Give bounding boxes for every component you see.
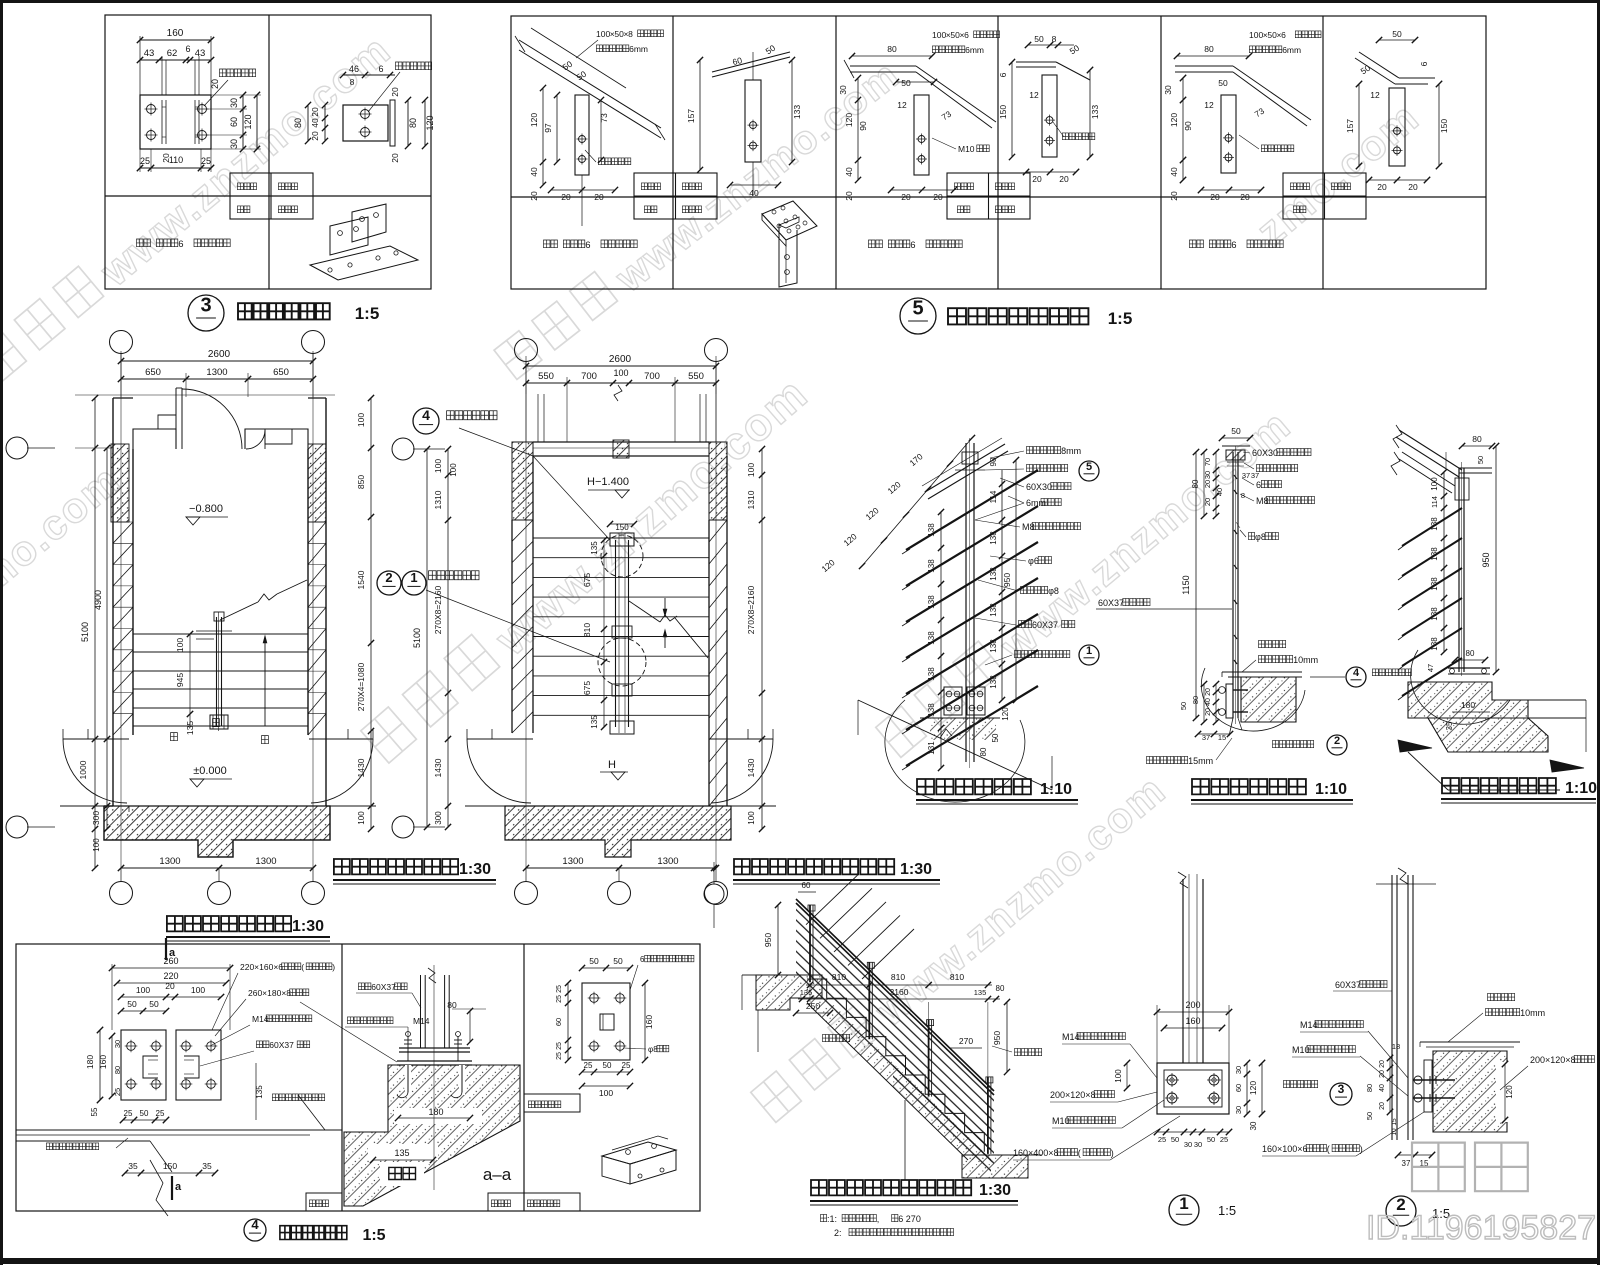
svg-text:50: 50 xyxy=(1207,1135,1215,1144)
svg-text:50: 50 xyxy=(613,956,623,966)
svg-text:98: 98 xyxy=(989,457,998,466)
elev1 top handrail xyxy=(925,444,1005,492)
svg-text:135: 135 xyxy=(185,721,195,735)
svg-text:5100: 5100 xyxy=(80,622,90,642)
panelD frame xyxy=(16,944,700,1211)
svg-text:M10: M10 xyxy=(958,144,975,154)
svg-text:1:10: 1:10 xyxy=(1040,781,1072,798)
svg-text:12: 12 xyxy=(1029,90,1039,100)
svg-text:40: 40 xyxy=(1169,167,1179,177)
svg-text:25: 25 xyxy=(556,995,563,1003)
svg-text:50: 50 xyxy=(1365,1112,1374,1120)
svg-text:25: 25 xyxy=(124,1109,133,1118)
svg-text:675: 675 xyxy=(582,681,592,695)
svg-text:,: , xyxy=(877,1214,880,1224)
svg-text:810: 810 xyxy=(891,972,905,982)
svg-text:H−1.400: H−1.400 xyxy=(587,476,629,488)
svg-text:3: 3 xyxy=(1338,1082,1345,1096)
svg-text:60X37: 60X37 xyxy=(1032,620,1058,630)
svg-text:6: 6 xyxy=(1419,61,1429,66)
svg-text:138: 138 xyxy=(1430,577,1439,591)
svg-text:20: 20 xyxy=(165,981,175,991)
svg-text:97: 97 xyxy=(543,123,553,133)
svg-text:35: 35 xyxy=(1445,721,1454,730)
svg-text:φ8: φ8 xyxy=(1255,532,1266,542)
svg-text:12: 12 xyxy=(897,100,907,110)
svg-text:950: 950 xyxy=(1002,573,1012,587)
svg-text:2: 2 xyxy=(385,570,392,585)
plan2 callouts xyxy=(413,408,439,434)
plan2 side walls xyxy=(511,520,513,733)
svg-text:a–a: a–a xyxy=(483,1165,512,1184)
svg-text:20: 20 xyxy=(1379,1070,1386,1078)
svg-text:220: 220 xyxy=(163,971,178,981)
svg-text:50: 50 xyxy=(1034,34,1044,44)
svg-text:2600: 2600 xyxy=(609,354,632,365)
svg-text:120: 120 xyxy=(1001,707,1010,721)
svg-text:650: 650 xyxy=(145,367,161,378)
svg-text:35: 35 xyxy=(202,1161,212,1171)
svg-text:6: 6 xyxy=(178,239,183,250)
svg-text:80: 80 xyxy=(1204,44,1214,54)
svg-text:138: 138 xyxy=(927,631,936,645)
svg-text:M14: M14 xyxy=(413,1016,430,1026)
elev2 small dims left cluster xyxy=(1215,452,1217,516)
svg-text:138: 138 xyxy=(989,603,998,617)
svg-text:35: 35 xyxy=(128,1161,138,1171)
elev2 top cap xyxy=(1226,450,1245,460)
svg-text:50: 50 xyxy=(901,78,911,88)
svg-text:120: 120 xyxy=(1169,113,1179,127)
plan2 top dimensions xyxy=(526,365,716,367)
svg-text:73: 73 xyxy=(599,113,609,123)
svg-text:1000: 1000 xyxy=(78,760,88,779)
svg-text:25: 25 xyxy=(1158,1135,1166,1144)
stair-elev posts xyxy=(806,875,858,925)
plan2 axis grid xyxy=(515,339,538,362)
elev1 base xyxy=(944,687,962,715)
svg-text:20: 20 xyxy=(529,191,539,201)
plan2 top wall xyxy=(512,442,533,520)
svg-text:90: 90 xyxy=(1183,121,1193,131)
elev1 slope dim chain upper-left xyxy=(862,438,972,566)
svg-text:138: 138 xyxy=(927,703,936,717)
svg-text:60X30: 60X30 xyxy=(1252,448,1278,458)
svg-text:15: 15 xyxy=(1391,1118,1398,1126)
svg-text:138: 138 xyxy=(989,567,998,581)
svg-text:1300: 1300 xyxy=(562,856,583,867)
svg-text:1:30: 1:30 xyxy=(900,861,932,878)
elev3 post xyxy=(1458,468,1460,672)
svg-text:138: 138 xyxy=(927,667,936,681)
svg-text:1:5: 1:5 xyxy=(355,304,380,323)
plan1 left dim chains xyxy=(94,398,96,868)
svg-text:138: 138 xyxy=(1430,607,1439,621)
svg-text:138: 138 xyxy=(1430,547,1439,561)
svg-text:(: ( xyxy=(1078,1148,1081,1158)
svg-text:20: 20 xyxy=(310,107,320,117)
svg-text:80: 80 xyxy=(447,1000,457,1010)
svg-text:25: 25 xyxy=(140,156,150,166)
svg-text:1310: 1310 xyxy=(746,490,756,509)
svg-text:1430: 1430 xyxy=(433,758,443,777)
stair-elev notes xyxy=(821,1214,827,1221)
svg-text:550: 550 xyxy=(538,371,554,382)
svg-text:φ8: φ8 xyxy=(1048,586,1059,596)
svg-text:4: 4 xyxy=(1353,667,1360,679)
svg-text:700: 700 xyxy=(581,371,597,382)
elev3 left chain xyxy=(1443,472,1445,652)
svg-text:160: 160 xyxy=(98,1055,108,1069)
svg-text:1: 1 xyxy=(1086,645,1092,657)
svg-text:810: 810 xyxy=(832,972,846,982)
svg-text:160×400×8: 160×400×8 xyxy=(1013,1148,1059,1158)
svg-text:138: 138 xyxy=(1430,637,1439,651)
plan1 inner dims xyxy=(189,634,191,726)
svg-text:157: 157 xyxy=(686,109,696,123)
svg-text:850: 850 xyxy=(356,475,366,489)
plan2 diagonal arrow with break xyxy=(629,601,660,622)
svg-text:H: H xyxy=(608,759,616,771)
plan2 stair treads xyxy=(533,537,709,539)
svg-text:50: 50 xyxy=(1476,456,1485,464)
svg-text:1:30: 1:30 xyxy=(292,918,324,935)
svg-text::1:: :1: xyxy=(827,1214,837,1224)
svg-text:4: 4 xyxy=(422,407,430,423)
plan2 left dim chains xyxy=(426,449,428,827)
svg-text:100: 100 xyxy=(1249,30,1263,40)
svg-text:138: 138 xyxy=(927,559,936,573)
svg-text:12: 12 xyxy=(1370,90,1380,100)
svg-text:47: 47 xyxy=(1426,664,1435,672)
plan1 walls xyxy=(112,398,114,806)
svg-text:25: 25 xyxy=(556,1042,563,1050)
svg-text:6: 6 xyxy=(585,240,590,251)
svg-text:6: 6 xyxy=(640,955,645,964)
svg-text:150: 150 xyxy=(163,1161,177,1171)
svg-text:20: 20 xyxy=(1408,182,1418,192)
svg-text:50: 50 xyxy=(1179,702,1188,710)
svg-text:5: 5 xyxy=(912,298,923,320)
svg-text:40: 40 xyxy=(749,188,759,198)
svg-text:100: 100 xyxy=(747,811,756,825)
svg-text:131: 131 xyxy=(927,741,936,755)
plan1 bottom wall xyxy=(104,806,330,857)
svg-text:20: 20 xyxy=(844,191,854,201)
panel B mini tables xyxy=(634,173,717,219)
svg-text:160: 160 xyxy=(167,28,184,39)
detail1 bubble xyxy=(1169,1195,1199,1225)
svg-text:30: 30 xyxy=(229,139,239,149)
svg-text:1:10: 1:10 xyxy=(1315,781,1347,798)
svg-text:1430: 1430 xyxy=(746,758,756,777)
svg-text:100: 100 xyxy=(746,463,756,477)
svg-text:100: 100 xyxy=(1430,477,1439,491)
svg-text:1:10: 1:10 xyxy=(1565,780,1597,797)
elev3 top handrail diagonals xyxy=(1399,430,1462,470)
svg-text:50: 50 xyxy=(140,1109,149,1118)
panel B cell3 handrail with horizontal arm xyxy=(850,65,916,67)
svg-text:950: 950 xyxy=(992,1031,1002,1045)
svg-text:1300: 1300 xyxy=(657,856,678,867)
svg-text:180: 180 xyxy=(1461,700,1475,710)
svg-text:φ6: φ6 xyxy=(1028,556,1039,566)
svg-text:20: 20 xyxy=(594,192,604,202)
plan2 inner dims xyxy=(603,540,605,727)
svg-text:80: 80 xyxy=(293,118,303,128)
svg-text:30: 30 xyxy=(838,85,848,95)
svg-text:80: 80 xyxy=(1191,696,1200,704)
panelD left labels xyxy=(121,1030,166,1100)
svg-text:100: 100 xyxy=(136,985,150,995)
svg-text:20: 20 xyxy=(1059,174,1069,184)
svg-text:100: 100 xyxy=(357,811,366,825)
svg-text:650: 650 xyxy=(273,367,289,378)
svg-text:114: 114 xyxy=(989,490,998,503)
svg-text:100: 100 xyxy=(433,459,443,473)
svg-text:135: 135 xyxy=(394,1148,409,1158)
page border frame xyxy=(0,0,1600,3)
elev1 title xyxy=(917,779,1031,794)
svg-text:200×120×8: 200×120×8 xyxy=(1530,1055,1576,1065)
svg-text:50: 50 xyxy=(1171,1135,1179,1144)
svg-text:100: 100 xyxy=(356,413,366,427)
svg-text:1430: 1430 xyxy=(356,758,366,777)
svg-text:200×120×8: 200×120×8 xyxy=(1050,1090,1096,1100)
svg-text:1540: 1540 xyxy=(356,570,366,589)
panel B notes xyxy=(544,240,558,248)
svg-text:6mm: 6mm xyxy=(965,45,984,55)
svg-text:1:5: 1:5 xyxy=(1108,309,1133,328)
svg-text:10: 10 xyxy=(1391,1128,1398,1136)
watermark brand bottom right xyxy=(1412,1143,1528,1192)
svg-text:133: 133 xyxy=(1090,105,1100,119)
plan1 top door xyxy=(176,387,182,389)
svg-text:20: 20 xyxy=(1379,1102,1386,1110)
svg-text:150: 150 xyxy=(998,105,1008,119)
detail2 bolts xyxy=(1414,1076,1422,1084)
svg-text:60X30: 60X30 xyxy=(1026,482,1052,492)
svg-text:120: 120 xyxy=(243,114,253,129)
svg-text:M8: M8 xyxy=(1022,522,1035,532)
svg-text:6: 6 xyxy=(378,64,383,74)
svg-text:150: 150 xyxy=(1439,119,1449,133)
svg-text:114: 114 xyxy=(1430,496,1439,508)
svg-text:950: 950 xyxy=(763,933,773,947)
svg-text:50: 50 xyxy=(589,956,599,966)
svg-text:30: 30 xyxy=(1234,1106,1243,1114)
svg-text:270X8=2160: 270X8=2160 xyxy=(433,586,443,635)
svg-text:18: 18 xyxy=(1392,1042,1400,1051)
svg-text:20: 20 xyxy=(1210,192,1220,202)
svg-text:180: 180 xyxy=(85,1055,95,1069)
svg-text:120: 120 xyxy=(844,113,854,127)
svg-text:55: 55 xyxy=(90,1107,99,1116)
svg-text:25: 25 xyxy=(156,1109,165,1118)
svg-text:138: 138 xyxy=(989,639,998,653)
elev2 post dots xyxy=(1234,475,1237,479)
svg-text:80: 80 xyxy=(408,118,418,128)
svg-text:30: 30 xyxy=(113,1040,122,1048)
svg-text:): ) xyxy=(332,962,335,972)
svg-text:1300: 1300 xyxy=(159,856,180,867)
svg-text:30: 30 xyxy=(1249,1121,1258,1130)
svg-text:60X37: 60X37 xyxy=(371,982,396,992)
svg-text:80: 80 xyxy=(1191,479,1200,488)
svg-text:80: 80 xyxy=(113,1066,122,1074)
svg-text:5: 5 xyxy=(1086,461,1092,473)
svg-text:2:: 2: xyxy=(834,1228,842,1238)
svg-text:60: 60 xyxy=(229,117,239,127)
svg-text:80: 80 xyxy=(996,984,1005,993)
elev3 right 950 dim xyxy=(1495,446,1497,672)
plan2 bottom wall and doors xyxy=(505,806,731,857)
svg-text:4: 4 xyxy=(251,1217,259,1232)
svg-text:40: 40 xyxy=(1215,488,1224,496)
stair-elev railing band flight2 lower xyxy=(893,1050,991,1178)
svg-text:810: 810 xyxy=(582,623,592,637)
svg-text:6: 6 xyxy=(910,240,915,251)
svg-text:100: 100 xyxy=(932,30,946,40)
svg-text:945: 945 xyxy=(175,673,185,687)
svg-text:15mm: 15mm xyxy=(1188,756,1213,766)
svg-text:50: 50 xyxy=(127,999,137,1009)
svg-text:50: 50 xyxy=(603,1061,612,1070)
plan2 title xyxy=(734,859,894,874)
elev1 labels right xyxy=(1027,446,1061,453)
panel A title xyxy=(310,246,418,280)
svg-text:50: 50 xyxy=(1231,426,1241,436)
plan1 right dim chain xyxy=(370,398,372,829)
plan1 top dimensions xyxy=(121,360,313,362)
svg-text:5100: 5100 xyxy=(412,628,422,648)
elev3 rails xyxy=(1402,508,1462,546)
svg-text:30: 30 xyxy=(1234,1066,1243,1074)
svg-text:20: 20 xyxy=(561,192,571,202)
panel A mini table xyxy=(230,173,313,219)
svg-text:30: 30 xyxy=(1184,1140,1192,1149)
panel A note xyxy=(137,239,151,247)
plan1 bottom doors xyxy=(63,738,129,740)
plan1 up arrow and marks xyxy=(264,636,266,726)
stair-elev title xyxy=(811,1180,971,1195)
detail1 base plate xyxy=(1157,1063,1229,1114)
svg-text:25: 25 xyxy=(622,1061,631,1070)
svg-text:100: 100 xyxy=(92,838,101,852)
svg-text:8: 8 xyxy=(1052,34,1057,44)
svg-text:6: 6 xyxy=(998,72,1008,77)
elev2 post xyxy=(1232,452,1234,718)
elev1 left 138 chain xyxy=(940,512,942,728)
detail1 post xyxy=(1182,879,1184,1063)
stair-elev right landing xyxy=(962,1155,1028,1178)
svg-text:700: 700 xyxy=(644,371,660,382)
svg-text:6: 6 xyxy=(1281,30,1286,40)
plan1 bottom dims xyxy=(121,867,313,869)
svg-text:100: 100 xyxy=(599,1088,613,1098)
svg-text:200: 200 xyxy=(1185,1000,1200,1010)
svg-text:160: 160 xyxy=(644,1015,654,1029)
svg-text:133: 133 xyxy=(792,105,802,119)
svg-text:20: 20 xyxy=(1169,191,1179,201)
plan1 landing break line xyxy=(220,602,258,620)
svg-text:100: 100 xyxy=(613,368,628,378)
svg-text:100: 100 xyxy=(191,985,205,995)
svg-text:100: 100 xyxy=(449,463,458,477)
svg-text:60X37: 60X37 xyxy=(269,1040,294,1050)
svg-text:a: a xyxy=(175,1181,182,1193)
svg-text:60: 60 xyxy=(1234,1084,1243,1092)
svg-text:20: 20 xyxy=(1032,174,1042,184)
svg-text:M8: M8 xyxy=(1256,496,1269,506)
plan2 bottom dims xyxy=(526,867,716,869)
elev2 bottom block xyxy=(1222,671,1302,673)
svg-text:220×160×6: 220×160×6 xyxy=(240,962,283,972)
plan1 stair treads xyxy=(133,633,308,635)
svg-text:20: 20 xyxy=(161,153,171,163)
svg-text:40: 40 xyxy=(1205,698,1212,706)
svg-text:20: 20 xyxy=(933,192,943,202)
svg-text:90: 90 xyxy=(858,121,868,131)
plan2 center stringer xyxy=(615,540,617,727)
panel B frame xyxy=(511,16,1486,289)
elev2 1150 dim xyxy=(1195,452,1197,718)
svg-text:1:5: 1:5 xyxy=(362,1227,385,1244)
svg-text:120: 120 xyxy=(1248,1081,1258,1095)
svg-text:25: 25 xyxy=(556,1052,563,1060)
svg-text:20: 20 xyxy=(390,87,400,97)
svg-text:80: 80 xyxy=(1472,434,1482,444)
svg-text:300: 300 xyxy=(434,811,443,825)
elev3 title xyxy=(1442,778,1556,793)
svg-text:100: 100 xyxy=(1114,1069,1123,1083)
svg-text:60: 60 xyxy=(802,881,811,890)
plan1 center stringer xyxy=(216,617,218,726)
svg-text:30: 30 xyxy=(1194,1140,1202,1149)
svg-text:1150: 1150 xyxy=(1181,575,1191,594)
svg-text:10mm: 10mm xyxy=(1520,1008,1545,1018)
svg-text:6: 6 xyxy=(185,44,190,54)
elev1 rails xyxy=(906,470,1038,550)
svg-text:6mm: 6mm xyxy=(629,44,648,54)
svg-text:300: 300 xyxy=(91,811,101,825)
svg-text:138: 138 xyxy=(1430,517,1439,531)
panel A right plate side view xyxy=(140,95,211,149)
svg-text:): ) xyxy=(1111,1148,1114,1158)
plan1 titles xyxy=(334,859,458,874)
svg-text:1:30: 1:30 xyxy=(459,861,491,878)
detail2 concrete block xyxy=(1433,1051,1507,1132)
svg-text:135: 135 xyxy=(590,541,599,555)
panel B cell6 plate xyxy=(1355,58,1395,84)
svg-text:138: 138 xyxy=(989,531,998,545)
panelD title xyxy=(602,1142,676,1164)
svg-text:25: 25 xyxy=(584,1061,593,1070)
svg-text:37: 37 xyxy=(1402,1159,1411,1168)
svg-text:20: 20 xyxy=(1240,192,1250,202)
svg-text:138: 138 xyxy=(927,523,936,537)
svg-text:43: 43 xyxy=(144,48,155,59)
svg-text:30: 30 xyxy=(229,98,239,108)
svg-text:20: 20 xyxy=(210,79,220,89)
svg-text:3: 3 xyxy=(200,295,211,317)
svg-text:40: 40 xyxy=(1379,1084,1386,1092)
svg-text:138: 138 xyxy=(927,595,936,609)
svg-text:20: 20 xyxy=(310,131,320,141)
elev1 right chains xyxy=(1001,470,1003,700)
svg-text:550: 550 xyxy=(688,371,704,382)
svg-text:120: 120 xyxy=(1505,1085,1514,1099)
